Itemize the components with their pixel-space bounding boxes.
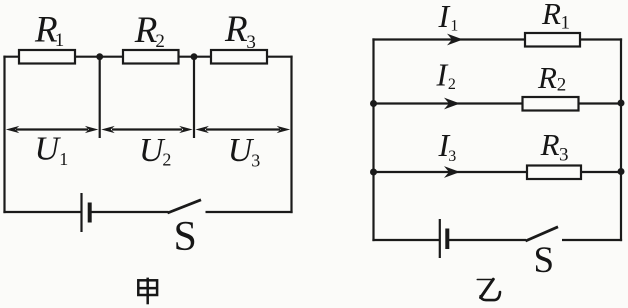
svg-text:1: 1 — [561, 12, 571, 33]
label jia (Chinese) — [138, 278, 157, 305]
resistor R3 — [211, 50, 267, 64]
wire branch 1 — [372, 38, 622, 40]
battery short plate — [88, 203, 92, 223]
resistor R3 — [527, 166, 581, 180]
switch S blade — [168, 200, 202, 213]
svg-text:3: 3 — [559, 144, 569, 165]
wire branch 2 — [372, 102, 622, 104]
wire right frame vertical — [620, 38, 622, 241]
svg-text:U: U — [35, 131, 62, 168]
node junction dot 1 — [96, 53, 103, 60]
wire bottom right segment — [206, 211, 293, 213]
svg-text:2: 2 — [162, 150, 171, 170]
U1 arrow line — [16, 128, 88, 130]
wire left frame vertical — [3, 56, 5, 214]
resistor R2 — [523, 97, 579, 111]
label yi (Chinese) — [477, 279, 500, 300]
node dot left branch3 — [370, 169, 377, 176]
U1 arrowhead right — [85, 126, 99, 133]
wire left frame vertical — [372, 38, 374, 241]
I2 arrowhead — [444, 98, 460, 110]
svg-text:3: 3 — [251, 150, 260, 170]
svg-text:2: 2 — [557, 74, 567, 95]
svg-text:2: 2 — [155, 31, 165, 52]
node dot right branch3 — [618, 168, 625, 175]
svg-text:R: R — [224, 9, 248, 50]
wire junction tick 2 — [193, 57, 195, 138]
U3 arrow line — [206, 128, 280, 130]
switch S blade — [526, 227, 559, 241]
battery short plate — [445, 229, 449, 250]
U2 arrowhead left — [101, 126, 115, 133]
svg-text:1: 1 — [59, 149, 68, 169]
wire right frame vertical — [290, 56, 292, 214]
svg-text:2: 2 — [448, 76, 456, 93]
node junction dot 2 — [191, 53, 198, 60]
wire junction tick 1 — [99, 57, 101, 138]
wire bottom left segment — [372, 239, 439, 241]
svg-text:R: R — [134, 10, 158, 51]
I1 arrowhead — [447, 34, 463, 46]
svg-text:I: I — [438, 0, 451, 34]
svg-text:R: R — [537, 60, 557, 95]
U3 arrowhead right — [277, 126, 291, 133]
U3 arrowhead left — [195, 126, 209, 133]
svg-text:R: R — [541, 0, 561, 31]
svg-text:1: 1 — [55, 30, 65, 51]
battery long plate — [80, 193, 82, 232]
svg-text:3: 3 — [246, 32, 256, 53]
svg-text:S: S — [534, 240, 555, 281]
svg-text:R: R — [540, 127, 560, 162]
node dot right branch2 — [618, 100, 625, 107]
svg-text:S: S — [174, 214, 197, 260]
resistor R1 — [19, 50, 75, 64]
U1 arrowhead left — [6, 126, 19, 133]
resistor R1 — [525, 33, 580, 47]
I3 arrowhead — [444, 166, 460, 178]
U2 arrow line — [112, 128, 182, 130]
wire top horizontal — [3, 56, 292, 58]
wire branch 3 — [372, 171, 622, 173]
svg-text:3: 3 — [448, 148, 456, 165]
svg-text:1: 1 — [450, 18, 458, 35]
wire bottom mid segment — [449, 239, 527, 241]
wire bottom right segment — [562, 239, 622, 241]
U2 arrowhead right — [179, 126, 193, 133]
node dot left branch2 — [370, 100, 377, 107]
resistor R2 — [123, 50, 179, 64]
wire bottom left segment — [3, 211, 81, 213]
svg-text:I: I — [436, 56, 449, 92]
wire bottom mid segment — [90, 211, 169, 213]
battery long plate — [439, 219, 441, 258]
